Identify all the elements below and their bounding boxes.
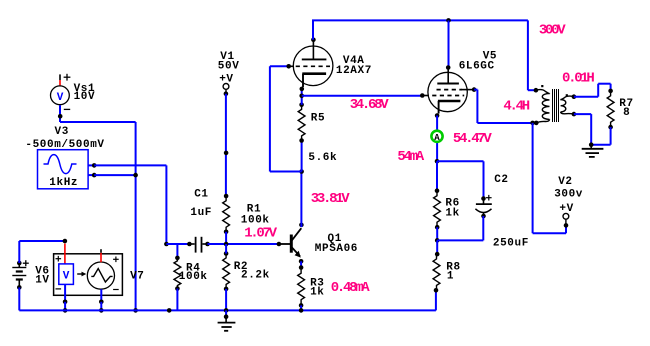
wire secondary to R7: [574, 84, 611, 97]
label Q1: [328, 233, 342, 245]
wire cathode to R5: [301, 89, 303, 105]
wire node to R2: [225, 244, 227, 254]
label R8 value 1: [447, 270, 454, 282]
label R6: [445, 198, 459, 210]
svg-text:V: V: [57, 92, 64, 104]
wire top rail right down: [528, 20, 536, 90]
V7 arrow: [77, 272, 86, 277]
node V5 plate: [446, 65, 451, 70]
label R3 value 1k: [310, 286, 324, 298]
transformer core: [553, 89, 559, 122]
label R5 value 5.6k: [308, 152, 337, 164]
wire junction to C2: [437, 161, 484, 198]
wire V6 plus to V7 input: [19, 241, 65, 263]
svg-text:R1: R1: [247, 203, 261, 215]
wire emitter to R3: [300, 261, 302, 267]
resistor R2: [223, 251, 230, 291]
wire V4A plate up: [312, 20, 314, 39]
signal source V3 box: [38, 150, 89, 189]
label 34.68V: [350, 97, 390, 113]
voltmeter source Vs1: [51, 86, 70, 105]
label R7: [619, 98, 633, 110]
resistor R6: [434, 188, 441, 229]
label R1: [247, 203, 261, 215]
node Q1 base: [277, 242, 282, 247]
wire junction to C2 bottom: [437, 216, 483, 240]
label MPSA06: [315, 243, 358, 255]
node rail dot A: [167, 308, 172, 313]
triode V4A: [289, 41, 333, 87]
svg-text:V3: V3: [55, 126, 69, 138]
svg-text:54mA: 54mA: [397, 149, 424, 165]
label R7 value 8: [623, 107, 630, 119]
V7 sense minus lead: [63, 284, 68, 304]
label R2 value 2.2k: [241, 270, 270, 282]
wire V6 minus to rail: [18, 287, 20, 310]
V7 source circle: [87, 257, 118, 290]
wire R3 to rail: [300, 305, 302, 310]
label 0.48mA: [331, 280, 371, 296]
label 300v: [554, 188, 583, 200]
svg-text:10V: 10V: [74, 91, 96, 103]
svg-text:4.4H: 4.4H: [503, 98, 529, 114]
wire R1 to node: [225, 232, 227, 244]
resistor R1: [223, 194, 230, 234]
svg-text:1: 1: [447, 270, 454, 282]
svg-text:250uF: 250uF: [493, 237, 529, 249]
wire rail to R8: [435, 290, 437, 310]
wire Vs1 minus to corner: [60, 105, 70, 122]
label 54mA: [397, 149, 424, 165]
label Vs1: [74, 83, 96, 95]
label 54.47V: [453, 131, 493, 147]
V7 output minus lead: [99, 289, 104, 304]
label 6L6GC: [459, 61, 495, 73]
svg-text:R5: R5: [311, 112, 325, 124]
svg-text:300v: 300v: [554, 188, 583, 200]
wire C1 node to R4: [176, 244, 178, 258]
transformer primary terminal bottom: [530, 121, 538, 126]
label 1kHz: [49, 177, 78, 189]
svg-text:54.47V: 54.47V: [453, 131, 493, 147]
ground center: [218, 310, 236, 330]
wire to C1: [166, 243, 189, 245]
node left bus to ground rail: [133, 308, 138, 313]
label 4.4H: [503, 98, 529, 114]
wire R7 to ground: [591, 127, 610, 145]
ammeter probe A: [431, 131, 442, 143]
svg-text:1k: 1k: [445, 208, 459, 220]
label V5: [483, 51, 497, 63]
controlled source V7 box: [54, 254, 123, 295]
node V5 screen: [472, 87, 477, 92]
capacitor C2: [475, 195, 491, 218]
wire V4A grid loop: [270, 66, 302, 171]
node Q1 collector: [299, 223, 304, 228]
transformer secondary terminals: [572, 94, 577, 116]
voltmeter source Vs1 plus lead: [60, 74, 70, 86]
wire Vs1 to left bus: [60, 122, 136, 310]
wire junction to R8: [436, 240, 438, 254]
svg-text:0.48mA: 0.48mA: [331, 280, 371, 296]
label 300V: [539, 22, 566, 38]
svg-text:0.01H: 0.01H: [562, 71, 594, 87]
label 1V: [35, 275, 49, 287]
node V5 cathode: [435, 113, 440, 118]
wire V1 down: [225, 94, 227, 196]
wire top rail: [312, 19, 528, 21]
label V1 +V: [219, 73, 233, 85]
node V4A grid: [286, 64, 291, 69]
ground right: [582, 145, 604, 157]
wire junction to R6: [436, 161, 438, 190]
wire V3 lower to bus: [94, 174, 135, 176]
svg-text:6L6GC: 6L6GC: [459, 61, 495, 73]
resistor R7: [607, 89, 614, 130]
label V2 +V: [559, 203, 573, 215]
svg-text:2.2k: 2.2k: [241, 270, 270, 282]
svg-text:V: V: [63, 271, 70, 283]
battery V6: [12, 260, 29, 290]
label -500m/500mV: [25, 139, 104, 151]
node V4A plate: [311, 38, 316, 43]
label 50V: [218, 60, 240, 72]
node V7 input plus: [63, 239, 68, 244]
label R3: [310, 277, 324, 289]
transformer primary terminal top: [534, 88, 539, 93]
node V7 output rail: [99, 308, 104, 313]
label R6 value 1k: [445, 208, 459, 220]
label 0.01H: [562, 71, 594, 87]
wire screen to primary: [474, 90, 536, 123]
resistor R4: [174, 256, 181, 291]
label 1.07V: [244, 225, 277, 241]
label 10V: [74, 91, 96, 103]
svg-text:1kHz: 1kHz: [49, 177, 78, 189]
label C1: [194, 189, 208, 201]
wire R6 to junction: [436, 227, 438, 240]
node cathode junction: [435, 159, 440, 164]
V7 output plus lead: [100, 249, 102, 262]
svg-text:1uF: 1uF: [190, 207, 212, 219]
wire V3 upper to C1 node: [94, 165, 166, 244]
node V4A cathode: [300, 87, 305, 92]
transformer T1 secondary: [561, 94, 574, 114]
resistor R3: [298, 265, 305, 308]
svg-text:C2: C2: [494, 174, 508, 186]
label V1: [220, 51, 234, 63]
node V1 wire joint: [224, 151, 229, 156]
label V7: [130, 270, 144, 282]
label V4A: [343, 55, 365, 67]
wire V7 output to rail: [100, 302, 102, 311]
node Vs1 minus: [58, 114, 63, 119]
svg-text:A: A: [434, 133, 440, 143]
label V2: [558, 176, 572, 188]
label R1 value 100k: [241, 215, 270, 227]
label V3: [55, 126, 69, 138]
wire R4 to rail: [176, 289, 178, 311]
node top rail junction: [446, 18, 451, 23]
node Q1 emitter: [299, 259, 304, 264]
transformer T1 primary: [536, 85, 550, 123]
supply terminal V1: [223, 84, 229, 96]
resistor R5: [298, 103, 305, 143]
label 250uF: [493, 237, 529, 249]
svg-text:8: 8: [623, 107, 630, 119]
svg-text:100k: 100k: [179, 271, 208, 283]
svg-text:MPSA06: MPSA06: [315, 243, 358, 255]
node grid wire junction: [299, 169, 304, 174]
svg-text:33.81V: 33.81V: [311, 191, 351, 207]
node R1 R2 C1 junction: [224, 242, 229, 247]
capacitor C1: [187, 237, 210, 253]
node V3 lower junction: [133, 173, 138, 178]
wire primary to V2: [533, 123, 566, 233]
wire R2 to rail: [225, 289, 227, 311]
label C1 value 1uF: [190, 207, 212, 219]
node V4A cathode junction: [299, 94, 304, 99]
V3 lower terminal: [88, 173, 96, 178]
node V7 sense rail: [63, 308, 68, 313]
label R5: [311, 112, 325, 124]
V3 upper terminal: [88, 163, 96, 168]
label R4: [186, 262, 200, 274]
V7 sense box: [56, 256, 74, 289]
node R3 rail junction: [299, 308, 304, 313]
wire C1 to Q1 base: [208, 243, 279, 245]
svg-text:1V: 1V: [35, 275, 49, 287]
svg-text:12AX7: 12AX7: [336, 65, 372, 77]
label R8: [446, 261, 460, 273]
label R4 value 100k: [179, 271, 208, 283]
label 12AX7: [336, 65, 372, 77]
wire V7 sense to rail: [64, 302, 66, 311]
svg-text:50V: 50V: [218, 60, 240, 72]
svg-text:V7: V7: [130, 270, 144, 282]
wire collector up: [300, 172, 302, 228]
wire ground rail: [19, 309, 436, 311]
wire top rail to V5: [448, 20, 450, 67]
node C1 left junction: [164, 242, 169, 247]
svg-text:5.6k: 5.6k: [308, 152, 337, 164]
wire 34.68V node: [302, 95, 423, 97]
label C2: [494, 174, 508, 186]
node V5 grid: [420, 93, 425, 98]
V7 input lead: [64, 244, 66, 264]
supply terminal V2: [563, 213, 569, 227]
svg-text:34.68V: 34.68V: [350, 97, 390, 113]
transistor Q1: [279, 228, 301, 257]
label R2: [234, 261, 248, 273]
svg-text:V2: V2: [558, 176, 572, 188]
wire R5 bottom to junction: [301, 141, 303, 172]
label V6: [35, 265, 49, 277]
svg-text:C1: C1: [194, 189, 208, 201]
wire cathode down: [436, 116, 438, 162]
svg-text:300V: 300V: [539, 22, 566, 38]
resistor R8: [433, 252, 440, 293]
label 33.81V: [311, 191, 351, 207]
node R6 R8 C2 junction: [435, 238, 440, 243]
node R2 rail junction: [224, 308, 229, 313]
wire secondary bottom to ground: [574, 114, 591, 145]
svg-text:1k: 1k: [310, 286, 324, 298]
svg-text:1.07V: 1.07V: [244, 225, 277, 241]
node ground right: [589, 142, 594, 147]
pentode V5: [422, 69, 474, 114]
